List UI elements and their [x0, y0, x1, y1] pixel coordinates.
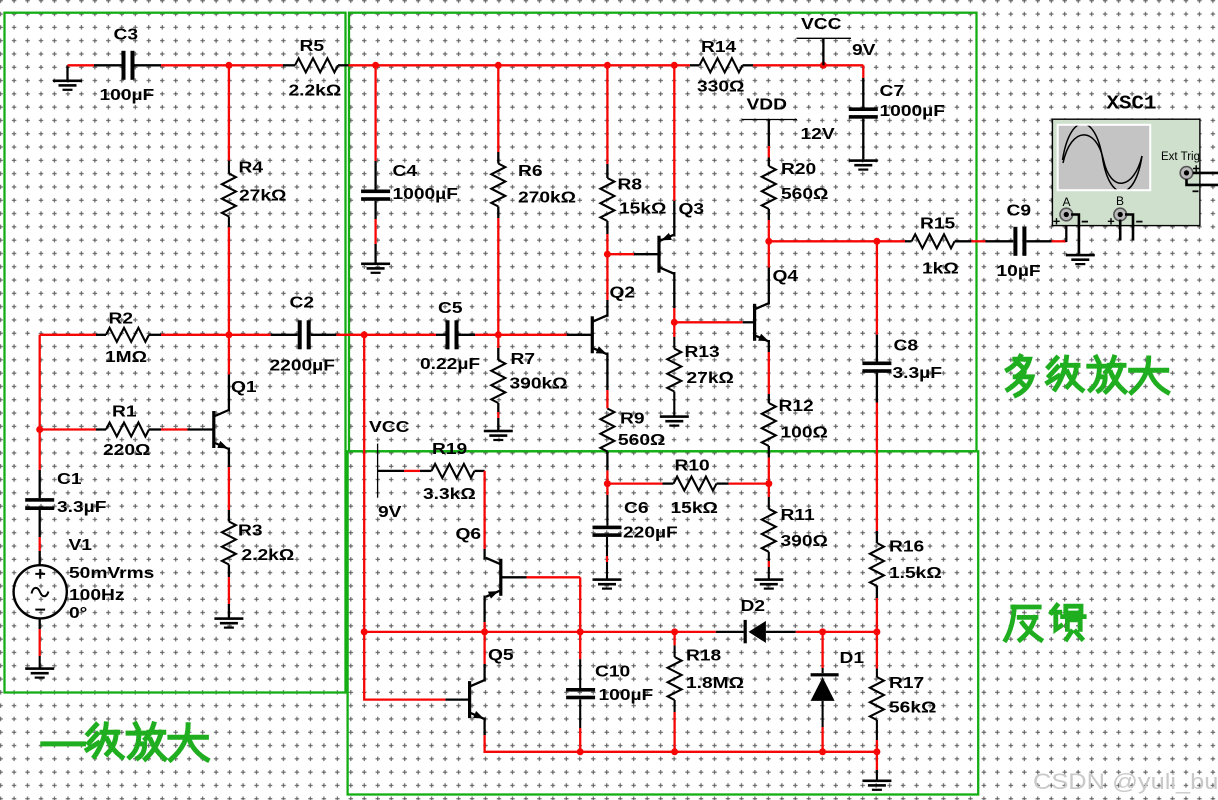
svg-text:0°: 0°	[69, 604, 87, 622]
wire	[971, 240, 985, 242]
wire	[606, 452, 608, 471]
svg-text:A: A	[1063, 195, 1071, 209]
ground (C4)	[361, 263, 390, 274]
diode D2	[741, 597, 766, 644]
wire	[497, 65, 499, 152]
wire (Q5 collector lead)	[483, 664, 485, 682]
wire	[876, 598, 878, 632]
svg-text:2200µF: 2200µF	[270, 356, 336, 374]
svg-text:15kΩ: 15kΩ	[671, 499, 718, 517]
wire	[823, 751, 877, 753]
wire (D1 bottom lead)	[822, 701, 824, 727]
wire (Q1 emitter lead)	[228, 448, 230, 468]
capacitor C1 3.3µF	[25, 470, 106, 516]
wire	[768, 394, 770, 403]
wire (ext trig -)	[1187, 179, 1218, 185]
ground (R17)	[862, 780, 891, 791]
capacitor C7 1000µF	[849, 82, 945, 120]
svg-text:1000µF: 1000µF	[880, 102, 946, 120]
svg-text:390Ω: 390Ω	[781, 532, 828, 550]
resistor R7 390kΩ	[491, 350, 567, 403]
wire	[188, 428, 214, 430]
wire	[374, 201, 376, 219]
region label 一级放大	[43, 724, 207, 760]
svg-text:C1: C1	[57, 470, 82, 488]
resistor R17 56kΩ	[870, 674, 936, 720]
wire	[94, 64, 122, 66]
wire (C6 bottom lead)	[606, 537, 608, 556]
transistor Q4 (NPN)	[755, 267, 799, 342]
svg-text:330Ω: 330Ω	[697, 77, 744, 95]
wire	[768, 209, 770, 220]
svg-text:VCC: VCC	[369, 418, 410, 436]
wire (C10 bottom lead)	[579, 699, 581, 728]
transistor Q3 (PNP)	[659, 200, 704, 274]
resistor R9 560Ω	[600, 409, 665, 452]
svg-text:Ext Trig: Ext Trig	[1161, 151, 1200, 163]
wire	[673, 308, 675, 322]
wire (B stub 2)	[1125, 215, 1133, 241]
wire	[716, 631, 744, 633]
junction (R9/C6/R10)	[604, 480, 611, 487]
wire (Q3 emitter lead)	[673, 201, 675, 237]
wire	[404, 470, 420, 472]
resistor R12 100Ω	[762, 397, 828, 446]
wire (ext trig +)	[1193, 172, 1218, 175]
transistor Q2 (NPN)	[592, 283, 635, 354]
svg-text:56kΩ: 56kΩ	[889, 698, 936, 716]
transistor Q5 (NPN)	[470, 646, 514, 720]
svg-text:1.5kΩ: 1.5kΩ	[889, 564, 942, 582]
svg-text:D1: D1	[840, 649, 865, 667]
wire	[768, 352, 770, 394]
wire	[446, 698, 470, 700]
wire	[475, 334, 498, 336]
resistor R6 270kΩ	[491, 162, 576, 207]
region box: first-stage amplifier (一级放大)	[5, 13, 346, 693]
junction (feedback rail/Q5-Q6 row)	[361, 628, 368, 635]
svg-text:560Ω: 560Ω	[781, 185, 828, 203]
wire	[634, 253, 659, 255]
svg-text:C10: C10	[595, 662, 630, 680]
wire (feedback rail)	[363, 335, 365, 632]
wire (B stub 1)	[1119, 220, 1122, 241]
junction (Q3 collector/R13/Q4 base)	[671, 319, 678, 326]
svg-text:Q6: Q6	[456, 525, 482, 543]
svg-text:C6: C6	[624, 499, 649, 517]
svg-text:VDD: VDD	[747, 95, 788, 113]
svg-text:R4: R4	[239, 158, 264, 176]
power symbol VCC 9V (feedback)	[369, 418, 410, 521]
wire	[876, 373, 878, 403]
wire	[606, 390, 608, 409]
capacitor C4 1000µF	[361, 162, 458, 203]
svg-text:R7: R7	[511, 350, 536, 368]
wire	[39, 551, 41, 566]
capacitor C3 100µF	[100, 25, 155, 104]
wire (V1 bottom lead)	[39, 618, 41, 629]
svg-text:B: B	[1116, 194, 1124, 208]
wire (Q5 emitter corner)	[485, 735, 581, 752]
wire	[376, 64, 499, 66]
wire (Q3 collector lead)	[673, 272, 675, 308]
svg-text:100µF: 100µF	[100, 86, 155, 104]
ground (R11)	[754, 578, 783, 589]
svg-text:C9: C9	[1007, 201, 1032, 219]
wire (C6 top lead)	[606, 484, 608, 495]
wire (R11 top lead)	[768, 484, 770, 497]
wire	[338, 64, 349, 66]
wire	[607, 482, 662, 484]
svg-text:12V: 12V	[801, 125, 835, 143]
ground (R13)	[660, 415, 689, 426]
svg-text:R5: R5	[300, 37, 325, 55]
svg-text:Q5: Q5	[488, 646, 514, 664]
resistor R1 220Ω	[103, 402, 150, 459]
scope waveform trace 2	[1063, 135, 1142, 183]
scope terminal Ext Trig	[1180, 167, 1193, 180]
svg-text:560Ω: 560Ω	[618, 431, 665, 449]
wire (Q6 lower lead)	[483, 596, 485, 623]
B + mark	[1108, 218, 1114, 224]
wire	[364, 631, 484, 633]
wire	[955, 240, 972, 242]
svg-text:CSDN @yuli_bupt: CSDN @yuli_bupt	[1033, 769, 1218, 794]
svg-text:390kΩ: 390kΩ	[510, 374, 568, 392]
wire	[769, 240, 877, 242]
wire	[134, 64, 161, 66]
wire	[374, 161, 376, 190]
oscilloscope XSC1	[1052, 93, 1218, 226]
svg-text:100µF: 100µF	[599, 686, 654, 704]
svg-text:1MΩ: 1MΩ	[105, 348, 147, 366]
svg-text:270kΩ: 270kΩ	[518, 188, 576, 206]
resistor R19 3.3kΩ	[423, 440, 476, 503]
junction (R16/R17/D2 net)	[873, 628, 880, 635]
wire	[663, 482, 674, 484]
wire (R4 column)	[228, 65, 230, 160]
wire	[436, 334, 448, 336]
wire (R17 top lead)	[876, 632, 878, 669]
wire	[690, 64, 700, 66]
wire	[768, 458, 770, 484]
wire	[1027, 240, 1052, 242]
ext trig - mark	[1193, 190, 1199, 192]
wire (R4 bottom lead)	[228, 217, 230, 228]
svg-text:XSC1: XSC1	[1107, 93, 1157, 115]
svg-text:R19: R19	[432, 440, 467, 458]
wire	[796, 631, 823, 633]
svg-text:220Ω: 220Ω	[103, 441, 150, 459]
wire	[161, 334, 229, 336]
wire	[673, 65, 675, 200]
wire	[283, 64, 295, 66]
resistor R2 1MΩ	[105, 309, 149, 366]
svg-text:R8: R8	[618, 175, 643, 193]
junction (rail/Q3 emitter)	[671, 62, 678, 69]
junction (R12/R10/R11)	[765, 480, 772, 487]
wire	[228, 335, 230, 375]
ground (scope A-)	[1066, 254, 1095, 265]
svg-text:C5: C5	[438, 299, 463, 317]
ground (V1)	[25, 667, 54, 678]
wire	[39, 629, 41, 656]
wire	[311, 334, 337, 336]
wire	[39, 430, 41, 471]
wire	[497, 418, 499, 430]
wire	[606, 65, 608, 164]
transistor Q6 (PNP, mirrored)	[456, 525, 501, 599]
wire	[743, 321, 755, 323]
wire	[498, 334, 566, 336]
wire	[753, 64, 823, 66]
svg-text:R18: R18	[686, 646, 721, 664]
junction (rail/C4)	[372, 62, 379, 69]
junction (R18 bottom)	[671, 748, 678, 755]
junction (R18 top)	[671, 628, 678, 635]
region box: multi-stage amplifier (多级放大)	[349, 13, 977, 452]
svg-text:R20: R20	[781, 160, 816, 178]
wire	[374, 65, 376, 161]
wire	[823, 631, 877, 633]
wire (D1 top lead)	[821, 632, 823, 668]
region label 多级放大	[1007, 356, 1167, 395]
svg-text:2.2kΩ: 2.2kΩ	[289, 81, 342, 99]
wire	[457, 334, 476, 336]
svg-text:C2: C2	[290, 293, 315, 311]
wire	[40, 428, 96, 430]
resistor R15 1kΩ	[912, 214, 959, 277]
wire	[229, 64, 283, 66]
svg-text:9V: 9V	[378, 503, 402, 521]
wire	[68, 64, 95, 66]
svg-text:C7: C7	[880, 82, 905, 100]
svg-text:VCC: VCC	[801, 15, 842, 33]
wire	[228, 510, 230, 522]
wire	[877, 240, 905, 242]
resistor R13 27kΩ	[667, 343, 734, 392]
resistor R5 2.2kΩ	[289, 37, 342, 100]
scope terminal A	[1060, 208, 1073, 221]
diode D1	[811, 649, 865, 701]
wire	[483, 632, 485, 664]
wire	[161, 64, 229, 66]
svg-text:R6: R6	[518, 162, 543, 180]
wire	[374, 244, 376, 263]
wire	[228, 565, 230, 578]
wire	[675, 631, 716, 633]
junction (R8/Q2 collector/Q3 base)	[604, 251, 611, 258]
wire	[606, 221, 608, 234]
resistor R20 560Ω	[762, 160, 829, 209]
ground (C7)	[849, 119, 878, 171]
wire (R13 bottom lead)	[673, 392, 675, 416]
svg-text:R17: R17	[889, 674, 924, 692]
resistor R3 2.2kΩ	[222, 521, 294, 564]
junction (R20/Q4 collector/output)	[765, 238, 772, 245]
wire (Q2 emitter lead)	[606, 353, 608, 391]
wire	[228, 467, 230, 510]
wire	[580, 631, 674, 633]
wire	[96, 334, 106, 336]
wire (scope A input stem)	[1065, 215, 1067, 243]
svg-text:0.22µF: 0.22µF	[420, 355, 480, 373]
junction (D1 bottom)	[819, 748, 826, 755]
wire	[606, 164, 608, 178]
svg-text:R12: R12	[779, 397, 814, 415]
junction (D1 top)	[819, 628, 826, 635]
wire	[497, 403, 499, 412]
wire	[497, 207, 499, 219]
svg-text:27kΩ: 27kΩ	[687, 369, 734, 387]
wire	[228, 577, 230, 604]
wire (Q1 collector lead)	[228, 375, 230, 412]
junction (C5/R7/Q2 base)	[495, 331, 502, 338]
junction (R17/bottom rail/ground)	[873, 748, 880, 755]
wire	[905, 240, 912, 242]
wire	[228, 604, 230, 618]
wire	[497, 335, 499, 348]
transistor Q1 (NPN)	[214, 378, 257, 449]
wire	[420, 470, 432, 472]
junction (Q6 base/C10)	[577, 628, 584, 635]
junction (C2/C5/feedback)	[361, 331, 368, 338]
wire	[497, 152, 499, 164]
svg-text:100Ω: 100Ω	[781, 423, 828, 441]
svg-text:15kΩ: 15kΩ	[619, 199, 666, 217]
wire	[876, 241, 878, 334]
wire	[606, 470, 608, 483]
wire	[498, 64, 607, 66]
wire	[485, 631, 581, 633]
svg-text:Q4: Q4	[773, 267, 799, 285]
wire (input corner vertical)	[39, 335, 41, 430]
capacitor C5 0.22µF	[420, 299, 480, 373]
wire	[717, 482, 729, 484]
wire (R17 ground lead)	[876, 752, 878, 770]
power symbol VDD 12V	[742, 95, 835, 146]
capacitor C9 10µF	[997, 201, 1041, 280]
wire (feedback rail lower)	[364, 632, 445, 700]
wire (R13 top lead)	[673, 322, 675, 337]
svg-text:3.3kΩ: 3.3kΩ	[423, 485, 476, 503]
wire	[606, 254, 608, 300]
junction (rail/R8)	[604, 62, 611, 69]
wire	[567, 334, 593, 336]
capacitor C8 3.3µF	[862, 336, 942, 382]
resistor R14 330Ω	[697, 38, 744, 96]
resistor R18 1.8MΩ	[668, 646, 744, 700]
wire	[271, 334, 298, 336]
resistor R4 27kΩ	[222, 158, 286, 216]
wire	[336, 334, 364, 336]
wire	[768, 158, 770, 167]
svg-text:50mVrms: 50mVrms	[69, 564, 155, 582]
wire	[674, 321, 742, 323]
svg-text:3.3µF: 3.3µF	[57, 498, 107, 516]
wire	[607, 253, 634, 255]
svg-text:D2: D2	[741, 597, 766, 615]
svg-text:C3: C3	[114, 25, 139, 43]
wire	[768, 220, 770, 241]
svg-text:R15: R15	[920, 214, 955, 232]
wire (Q6 emitter column)	[483, 471, 485, 549]
wire	[862, 65, 864, 78]
capacitor C6 220µF	[593, 499, 679, 542]
capacitor C2 2200µF	[270, 293, 336, 374]
svg-text:27kΩ: 27kΩ	[239, 186, 286, 204]
svg-text:R11: R11	[781, 506, 815, 524]
svg-text:2.2kΩ: 2.2kΩ	[242, 546, 295, 564]
resistor R11 390Ω	[762, 506, 828, 552]
wire	[39, 537, 41, 551]
ground (R3)	[214, 617, 243, 628]
wire	[364, 334, 436, 336]
wire	[985, 240, 1013, 242]
scope waveform trace 1	[1063, 124, 1143, 192]
wire	[876, 586, 878, 598]
svg-text:Q2: Q2	[610, 283, 636, 301]
wire	[39, 470, 41, 498]
wire (Q5 emitter lead)	[483, 718, 485, 736]
B - mark	[1136, 221, 1142, 223]
ext trig + mark	[1193, 165, 1199, 171]
power symbol VCC 9V	[797, 15, 876, 66]
svg-text:1000µF: 1000µF	[393, 185, 459, 203]
wire	[161, 428, 188, 430]
junction (output/C8)	[873, 238, 880, 245]
wire (R18 top lead)	[673, 632, 675, 646]
svg-text:3.3µF: 3.3µF	[893, 364, 943, 382]
junction (rail/VCC)	[820, 62, 827, 69]
wire (Q4 collector lead)	[768, 268, 770, 305]
wire	[580, 751, 674, 753]
svg-text:R10: R10	[675, 456, 710, 474]
resistor R8 15kΩ	[600, 175, 666, 221]
wire (R17 bottom lead)	[876, 720, 878, 740]
svg-text:R3: R3	[238, 521, 263, 539]
svg-text:220µF: 220µF	[623, 523, 678, 541]
wire	[606, 234, 608, 254]
wire	[497, 218, 499, 335]
svg-text:R1: R1	[112, 402, 137, 420]
wire	[96, 428, 106, 430]
A - mark	[1082, 221, 1088, 223]
wire	[675, 751, 823, 753]
region box: feedback (反馈)	[348, 451, 979, 794]
ground (C3 input ground)	[53, 65, 82, 91]
wire	[768, 446, 770, 458]
svg-text:V1: V1	[69, 536, 93, 554]
svg-text:R14: R14	[701, 38, 736, 56]
wire (Q4 emitter lead)	[768, 340, 770, 352]
wire	[607, 64, 674, 66]
svg-text:100Hz: 100Hz	[69, 586, 125, 604]
svg-text:R9: R9	[620, 409, 645, 427]
ground (C6)	[593, 578, 622, 589]
wire	[823, 64, 863, 66]
wire (C10 top lead)	[579, 632, 581, 659]
junction (C10 bottom)	[577, 748, 584, 755]
wire	[876, 531, 878, 543]
wire	[349, 64, 376, 66]
wire	[229, 334, 271, 336]
wire (R11 bottom lead)	[768, 552, 770, 561]
wire	[149, 428, 161, 430]
A + mark	[1053, 218, 1059, 224]
svg-text:R13: R13	[685, 343, 720, 361]
wire	[674, 64, 690, 66]
